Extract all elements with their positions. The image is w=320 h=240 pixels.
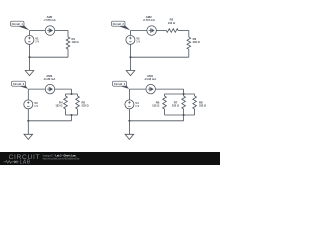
svg-text:-14.90 mA: -14.90 mA [144, 77, 156, 81]
svg-text:332 Ω: 332 Ω [199, 104, 206, 108]
svg-text:-7.576 mA: -7.576 mA [43, 18, 55, 22]
svg-text:132 Ω: 132 Ω [168, 21, 175, 25]
svg-text:R2: R2 [170, 18, 174, 22]
svg-text:LAB: LAB [20, 160, 31, 166]
svg-text:Circuit_1: Circuit_1 [12, 22, 24, 26]
svg-text:-11.80 mA: -11.80 mA [43, 77, 55, 81]
svg-text:Circuit_4: Circuit_4 [114, 82, 126, 86]
svg-text:132 Ω: 132 Ω [55, 104, 62, 108]
svg-text:232 Ω: 232 Ω [193, 40, 200, 44]
svg-text:132 Ω: 132 Ω [152, 104, 159, 108]
svg-text:132 Ω: 132 Ω [72, 40, 79, 44]
svg-text:Circuit_3: Circuit_3 [13, 82, 25, 86]
svg-text:1 V: 1 V [135, 104, 139, 108]
svg-text:232 Ω: 232 Ω [172, 104, 179, 108]
svg-text:http://circuitlab.com/c4k2dd6t: http://circuitlab.com/c4k2dd6tmq7za [43, 158, 80, 161]
svg-text:1 V: 1 V [136, 40, 140, 44]
svg-text:1 V: 1 V [34, 104, 38, 108]
svg-text:Circuit_2: Circuit_2 [113, 22, 125, 26]
svg-text:-2.747 mA: -2.747 mA [143, 18, 155, 22]
svg-text:huangm17 / Lab 2 - Ohm's Law: huangm17 / Lab 2 - Ohm's Law [43, 155, 76, 157]
svg-text:1 V: 1 V [35, 40, 39, 44]
svg-text:232 Ω: 232 Ω [82, 104, 89, 108]
